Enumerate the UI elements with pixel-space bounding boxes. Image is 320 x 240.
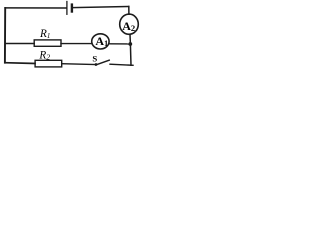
- svg-text:S: S: [92, 53, 97, 63]
